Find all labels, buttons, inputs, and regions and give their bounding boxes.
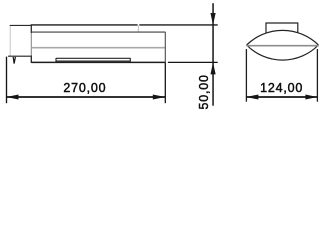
svg-text:124,00: 124,00	[260, 81, 303, 95]
svg-text:50,00: 50,00	[197, 74, 211, 109]
svg-text:270,00: 270,00	[63, 81, 106, 95]
